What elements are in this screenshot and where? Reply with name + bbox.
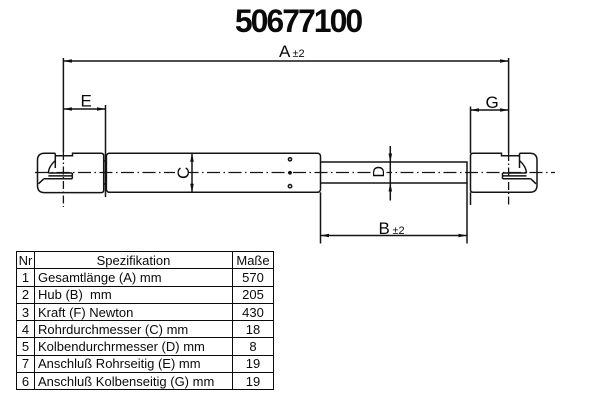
arrow D bottom — [389, 183, 393, 192]
left fitting slot lines — [44, 173, 73, 179]
arrow B right — [459, 234, 468, 238]
label C background gap — [175, 166, 189, 179]
arrow G left — [471, 108, 480, 112]
right fitting slot vertical — [519, 156, 521, 168]
left fitting L1 outer body — [38, 153, 104, 192]
E right extension line — [105, 105, 107, 197]
right fitting edge extension below — [470, 192, 472, 205]
neck stub bottom — [104, 183, 107, 185]
right eye axis dash through fitting — [508, 153, 510, 205]
B right extension line — [466, 183, 468, 244]
arrow A left — [63, 59, 72, 63]
right fitting slot lines — [503, 173, 531, 179]
arrow D top — [389, 154, 393, 163]
arrow B left — [321, 234, 330, 238]
dimension line D — [389, 146, 391, 201]
left eye axis extension line — [62, 58, 64, 152]
left fitting slot vertical — [54, 156, 56, 168]
svg-text:D: D — [371, 166, 388, 178]
arrow A right — [500, 59, 509, 63]
svg-text:A: A — [279, 42, 291, 61]
tube hole bottom — [288, 185, 291, 188]
svg-text:±2: ±2 — [393, 225, 405, 237]
left fitting socket arc — [48, 161, 55, 174]
part number title — [0, 3, 598, 40]
right fitting socket arc — [520, 161, 527, 174]
svg-text:±2: ±2 — [293, 48, 305, 60]
svg-text:B: B — [379, 219, 390, 238]
arrow C bottom — [190, 184, 194, 193]
svg-text:E: E — [81, 92, 92, 111]
svg-text:C: C — [174, 167, 193, 179]
arrow C top — [190, 153, 194, 162]
specification table — [16, 251, 274, 390]
left fitting chamfer — [39, 179, 44, 184]
piston rod — [321, 162, 468, 183]
arrow G right — [500, 108, 509, 112]
dimension line B — [321, 235, 468, 237]
right eye axis extension line — [508, 58, 510, 153]
right fitting outer body — [471, 153, 538, 192]
dimension line C — [191, 153, 193, 192]
dimension line A — [63, 60, 508, 62]
right fitting chamfer — [531, 179, 536, 184]
label D background gap — [373, 166, 387, 178]
B left extension line — [320, 192, 322, 243]
arrow E left — [63, 107, 72, 111]
left eye axis dash through fitting — [62, 152, 64, 207]
tube hole mid — [288, 171, 292, 175]
arrow E right — [97, 107, 106, 111]
tube hole top — [288, 158, 291, 161]
centerline — [35, 172, 555, 174]
dimension line E — [63, 108, 105, 110]
neck stub top — [104, 160, 107, 162]
G left extension line — [470, 107, 472, 154]
dimension line G — [471, 109, 509, 111]
tube — [106, 153, 320, 192]
svg-text:G: G — [486, 93, 499, 112]
